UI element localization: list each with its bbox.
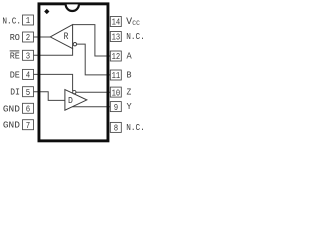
- IC body outline: [39, 4, 108, 141]
- wire B: receiver bubble input to pin 11: [77, 44, 111, 75]
- svg-text:7: 7: [26, 121, 30, 131]
- svg-text:RO: RO: [10, 32, 20, 43]
- op-amp D (driver triangle): [65, 90, 87, 111]
- bubble on receiver B input: [73, 43, 76, 46]
- pin 2 box: [23, 32, 34, 43]
- pin 9 box: [110, 102, 121, 113]
- svg-text:8: 8: [114, 124, 118, 134]
- svg-text:Y: Y: [127, 101, 132, 112]
- wire DE: pin 4 to driver enable bubble: [33, 74, 72, 91]
- svg-text:9: 9: [114, 103, 118, 113]
- svg-text:3: 3: [26, 52, 30, 62]
- svg-text:A: A: [127, 51, 132, 62]
- pin 1 marker diamond: [44, 9, 49, 14]
- svg-text:5: 5: [26, 88, 30, 98]
- svg-text:14: 14: [112, 18, 121, 28]
- svg-text:B: B: [127, 70, 132, 81]
- notch at top of body: [66, 4, 79, 11]
- pin 14 box: [110, 17, 121, 28]
- wire Y: driver bottom edge to pin 9: [72, 106, 110, 108]
- svg-text:R: R: [64, 32, 69, 43]
- pin 4 box: [23, 69, 34, 80]
- svg-text:6: 6: [26, 105, 30, 115]
- svg-text:GND: GND: [3, 103, 20, 114]
- pin 13 box: [110, 32, 121, 43]
- svg-text:4: 4: [26, 71, 30, 81]
- svg-text:13: 13: [112, 33, 121, 43]
- bubble on driver enable: [73, 90, 76, 93]
- wire Z: driver bubble to pin 10: [76, 91, 110, 93]
- pin 11 box: [110, 70, 121, 81]
- svg-text:DI: DI: [10, 87, 20, 98]
- svg-text:Z: Z: [127, 87, 132, 98]
- svg-text:GND: GND: [3, 120, 20, 131]
- overline on RE: [10, 50, 20, 52]
- svg-text:DE: DE: [10, 69, 20, 80]
- pin 8 box: [110, 122, 121, 133]
- svg-text:N.C.: N.C.: [126, 31, 145, 42]
- svg-text:D: D: [68, 95, 73, 106]
- wire DI: pin 5 to driver base: [33, 92, 65, 101]
- op-amp R (receiver triangle): [50, 25, 72, 49]
- wire RE: pin 3 to receiver bottom corner: [33, 48, 72, 55]
- pin 5 box: [23, 87, 34, 98]
- pin 7 box: [23, 120, 34, 131]
- svg-text:CC: CC: [132, 20, 140, 27]
- svg-text:11: 11: [112, 71, 121, 81]
- svg-text:RE: RE: [10, 50, 20, 61]
- pin 1 box: [23, 15, 34, 26]
- pin 3 box: [23, 50, 34, 61]
- svg-text:2: 2: [26, 33, 30, 43]
- svg-text:10: 10: [112, 88, 121, 98]
- pin 10 box: [110, 87, 121, 98]
- svg-text:12: 12: [112, 52, 121, 62]
- wire RO: pin 2 to receiver apex: [33, 36, 50, 38]
- pin 12 box: [110, 51, 121, 62]
- svg-text:1: 1: [26, 16, 30, 26]
- svg-text:N.C.: N.C.: [2, 16, 21, 27]
- wire A: receiver top input to pin 12: [73, 25, 111, 56]
- pin 6 box: [23, 103, 34, 114]
- svg-text:N.C.: N.C.: [126, 122, 145, 133]
